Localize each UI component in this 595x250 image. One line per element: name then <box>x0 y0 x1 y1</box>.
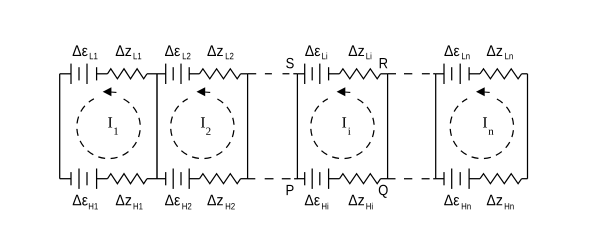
label ΔεL2 (top) <box>165 45 190 59</box>
loop current In dashed circle <box>450 99 513 159</box>
loop current I1 dashed circle <box>77 99 140 159</box>
wire: bottom-right segment of loop i <box>381 178 388 180</box>
wire: top-left segment of loop 1 <box>60 73 71 75</box>
wire: bottom-left segment of loop 2 <box>157 178 166 180</box>
loop current I2 dashed circle <box>171 99 234 159</box>
resistor ΔZL2 (top impedance, loop 2) <box>200 69 241 79</box>
wire: top-left segment of loop 2 <box>157 73 166 75</box>
wire: top middle segment of loop i <box>329 73 340 75</box>
wire: bottom middle segment of loop n <box>469 178 480 180</box>
wire: right vertical edge of loop 1 <box>156 74 158 179</box>
node S <box>286 58 293 68</box>
label ΔεH2 (bottom) <box>165 195 191 210</box>
label ΔZL2 (top) <box>207 45 233 59</box>
loop current Ii direction arrow (counter-clockwise) <box>337 87 351 96</box>
wire: left vertical edge of loop n <box>435 74 437 179</box>
wire: top-right segment of loop i <box>381 73 388 75</box>
loop current I2 direction arrow (counter-clockwise) <box>197 87 211 96</box>
loop current I1 direction arrow (counter-clockwise) <box>103 87 117 96</box>
wire: bottom-left segment of loop i <box>297 178 304 180</box>
loop current Ii dashed circle <box>311 99 374 159</box>
wire: dashed link from loop 2 to node S (top) <box>248 73 298 75</box>
resistor ΔZLn (top impedance, loop n) <box>480 69 522 79</box>
resistor ΔZHn (bottom impedance, loop n) <box>480 174 522 184</box>
label ΔZL1 (top) <box>116 45 142 59</box>
battery ΔεHi (bottom EMF source, loop i) <box>305 169 329 189</box>
resistor ΔZL1 (top impedance, loop 1) <box>108 69 148 79</box>
node R <box>380 58 388 68</box>
wire: bottom-right segment of loop 1 <box>147 178 157 180</box>
wire: dashed link from loop 2 to node P (bottom) <box>248 178 298 180</box>
battery ΔεLi (top EMF source, loop i) <box>305 64 329 84</box>
wire: top middle segment of loop 1 <box>97 73 108 75</box>
wire: top middle segment of loop 2 <box>189 73 199 75</box>
wire: bottom-left segment of loop n <box>436 178 444 180</box>
resistor ΔZLi (top impedance, loop i) <box>340 69 381 79</box>
label ΔZHn (bottom) <box>487 195 514 210</box>
wire: top-right segment of loop n <box>522 73 528 75</box>
wire: dashed link from node R to loop n (top) <box>388 73 436 75</box>
label ΔZHi (bottom) <box>349 195 373 210</box>
label ΔεLn (top) <box>444 45 469 59</box>
label ΔZH1 (bottom) <box>116 195 143 210</box>
label ΔεH1 (bottom) <box>73 195 98 210</box>
wire: top middle segment of loop n <box>469 73 480 75</box>
node Q <box>379 185 388 198</box>
wire: right vertical edge of loop i <box>387 74 389 179</box>
wire: bottom-right segment of loop n <box>522 178 528 180</box>
label ΔZH2 (bottom) <box>207 195 234 210</box>
wire: top-right segment of loop 2 <box>241 73 248 75</box>
battery ΔεL1 (top EMF source, loop 1) <box>71 64 97 84</box>
loop current label I2 <box>201 117 211 135</box>
battery ΔεLn (top EMF source, loop n) <box>444 64 469 84</box>
wire: top-left segment of loop i <box>297 73 304 75</box>
wire: left vertical edge of loop 1 <box>59 74 61 179</box>
wire: right vertical edge of loop n <box>527 74 529 179</box>
wire: bottom middle segment of loop i <box>329 178 340 180</box>
battery ΔεH1 (bottom EMF source, loop 1) <box>71 169 97 189</box>
label ΔZLn (top) <box>487 45 513 59</box>
resistor ΔZH1 (bottom impedance, loop 1) <box>108 174 148 184</box>
loop current label In <box>483 117 494 135</box>
wire: bottom middle segment of loop 1 <box>97 178 108 180</box>
label ΔZLi (top) <box>349 45 372 59</box>
wire: dashed link from node Q to loop n (bottom) <box>388 178 436 180</box>
loop current In direction arrow (counter-clockwise) <box>476 87 490 96</box>
loop current label Ii <box>342 117 350 135</box>
loop current label I1 <box>108 117 118 135</box>
wire: top-right segment of loop 1 <box>147 73 157 75</box>
battery ΔεH2 (bottom EMF source, loop 2) <box>166 169 190 189</box>
wire: bottom-left segment of loop 1 <box>60 178 71 180</box>
label ΔεL1 (top) <box>73 45 98 59</box>
label ΔεHi (bottom) <box>305 195 328 210</box>
battery ΔεL2 (top EMF source, loop 2) <box>166 64 190 84</box>
battery ΔεHn (bottom EMF source, loop n) <box>444 169 469 189</box>
wire: top-left segment of loop n <box>436 73 444 75</box>
label ΔεHn (bottom) <box>444 195 470 210</box>
wire: left vertical edge of loop 2 <box>156 74 158 179</box>
resistor ΔZH2 (bottom impedance, loop 2) <box>200 174 241 184</box>
wire: left vertical edge of loop i <box>296 74 298 179</box>
wire: right vertical edge of loop 2 <box>247 74 249 179</box>
resistor ΔZHi (bottom impedance, loop i) <box>340 174 381 184</box>
label ΔεLi (top) <box>305 45 327 59</box>
wire: bottom-right segment of loop 2 <box>241 178 248 180</box>
node P <box>287 185 294 195</box>
wire: bottom middle segment of loop 2 <box>189 178 199 180</box>
